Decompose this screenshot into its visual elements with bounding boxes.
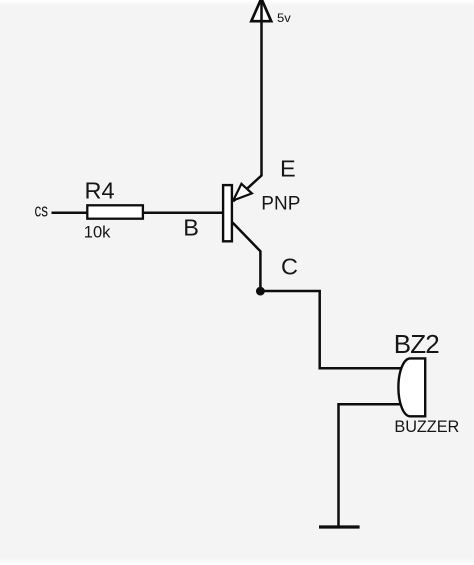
power +5v symbol [251,0,271,21]
svg-text:10k: 10k [84,223,111,241]
wire buzzer bottom lead to ground [339,404,405,526]
svg-text:BUZZER: BUZZER [394,418,459,436]
node junction [256,287,265,296]
resistor R4 [87,205,143,218]
buzzer BZ2 [398,358,425,416]
svg-text:C: C [281,254,298,280]
svg-text:R4: R4 [85,177,115,203]
transistor Q1 PNP [223,184,252,242]
svg-text:PNP: PNP [261,194,300,215]
svg-text:BZ2: BZ2 [394,329,439,359]
wire junction to buzzer top lead [260,291,404,368]
svg-text:E: E [280,155,296,181]
wire 5v supply to emitter [233,0,261,201]
svg-text:B: B [183,215,199,241]
svg-text:5v: 5v [277,11,291,25]
wire collector [233,223,261,292]
wire resistor R4 to base [142,211,223,214]
ground [319,525,360,528]
wire cs to resistor R4 [52,211,89,214]
svg-text:cs: cs [35,200,49,220]
